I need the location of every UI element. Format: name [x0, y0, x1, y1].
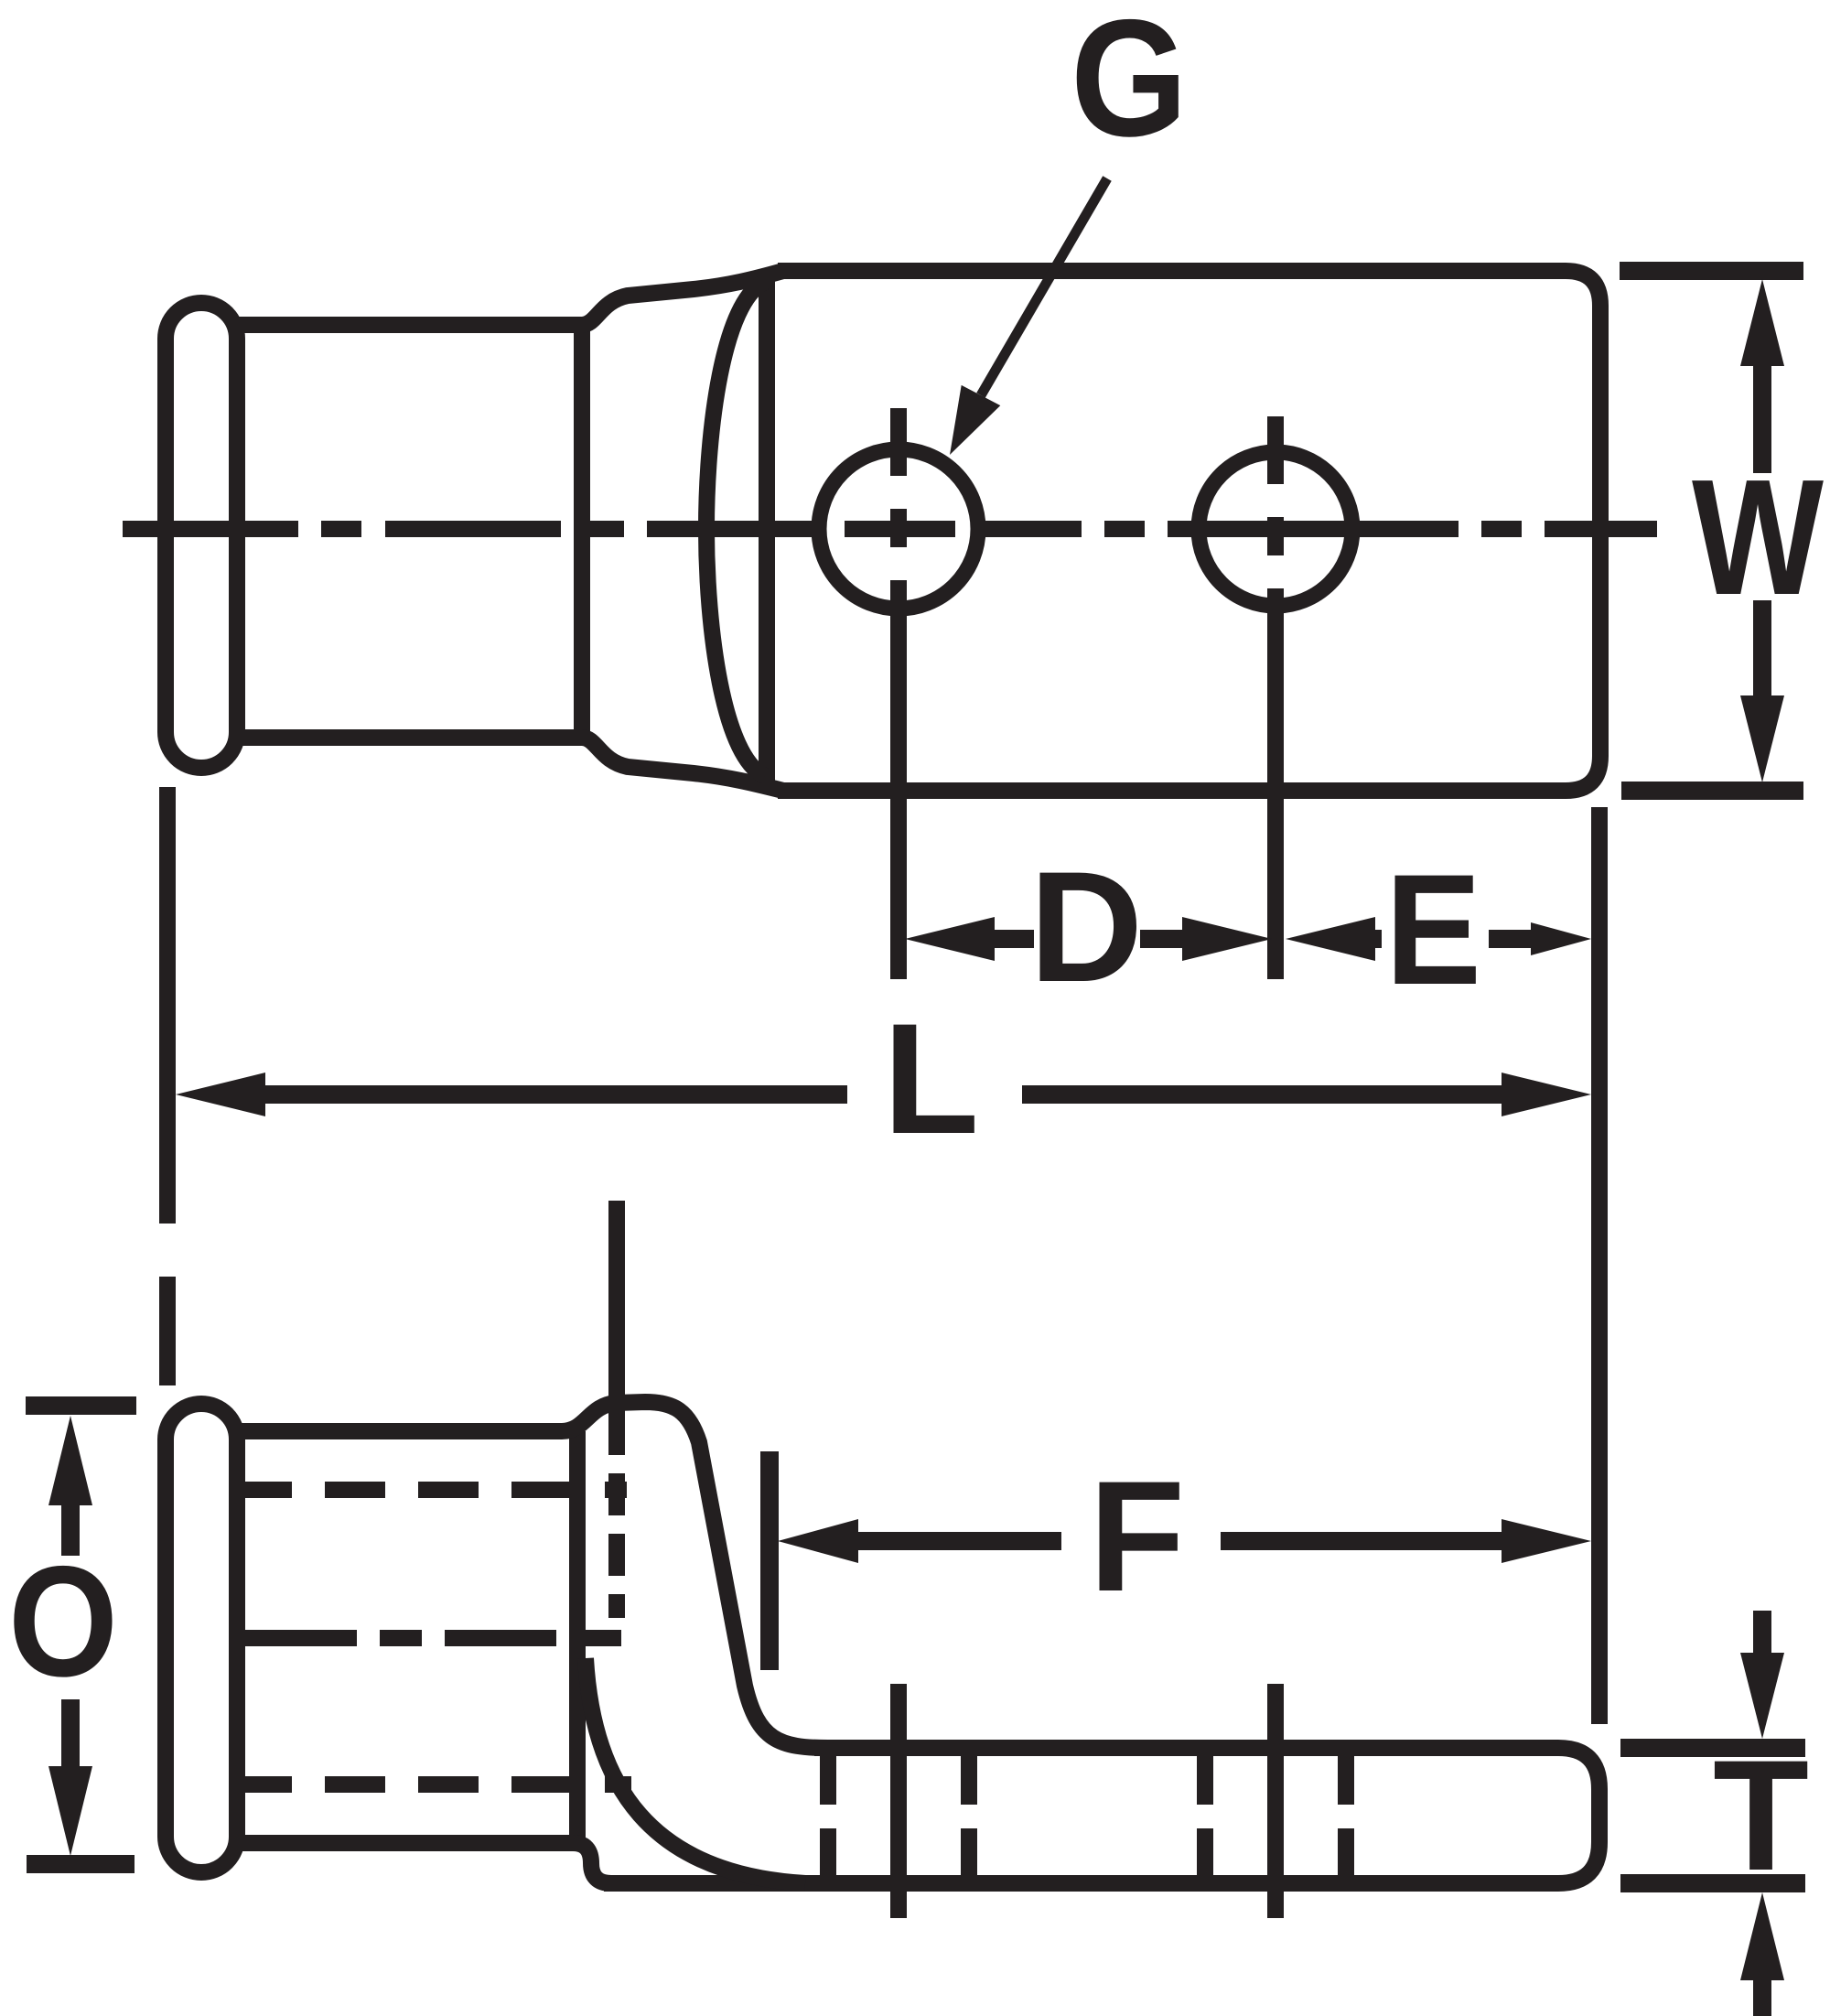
svg-text:E: E [1385, 842, 1481, 1018]
svg-text:F: F [1089, 1449, 1185, 1624]
svg-text:G: G [1071, 0, 1188, 171]
svg-text:O: O [8, 1534, 118, 1709]
svg-text:T: T [1713, 1728, 1809, 1903]
svg-text:W: W [1692, 446, 1824, 630]
svg-text:L: L [883, 991, 979, 1167]
svg-text:D: D [1029, 839, 1143, 1015]
